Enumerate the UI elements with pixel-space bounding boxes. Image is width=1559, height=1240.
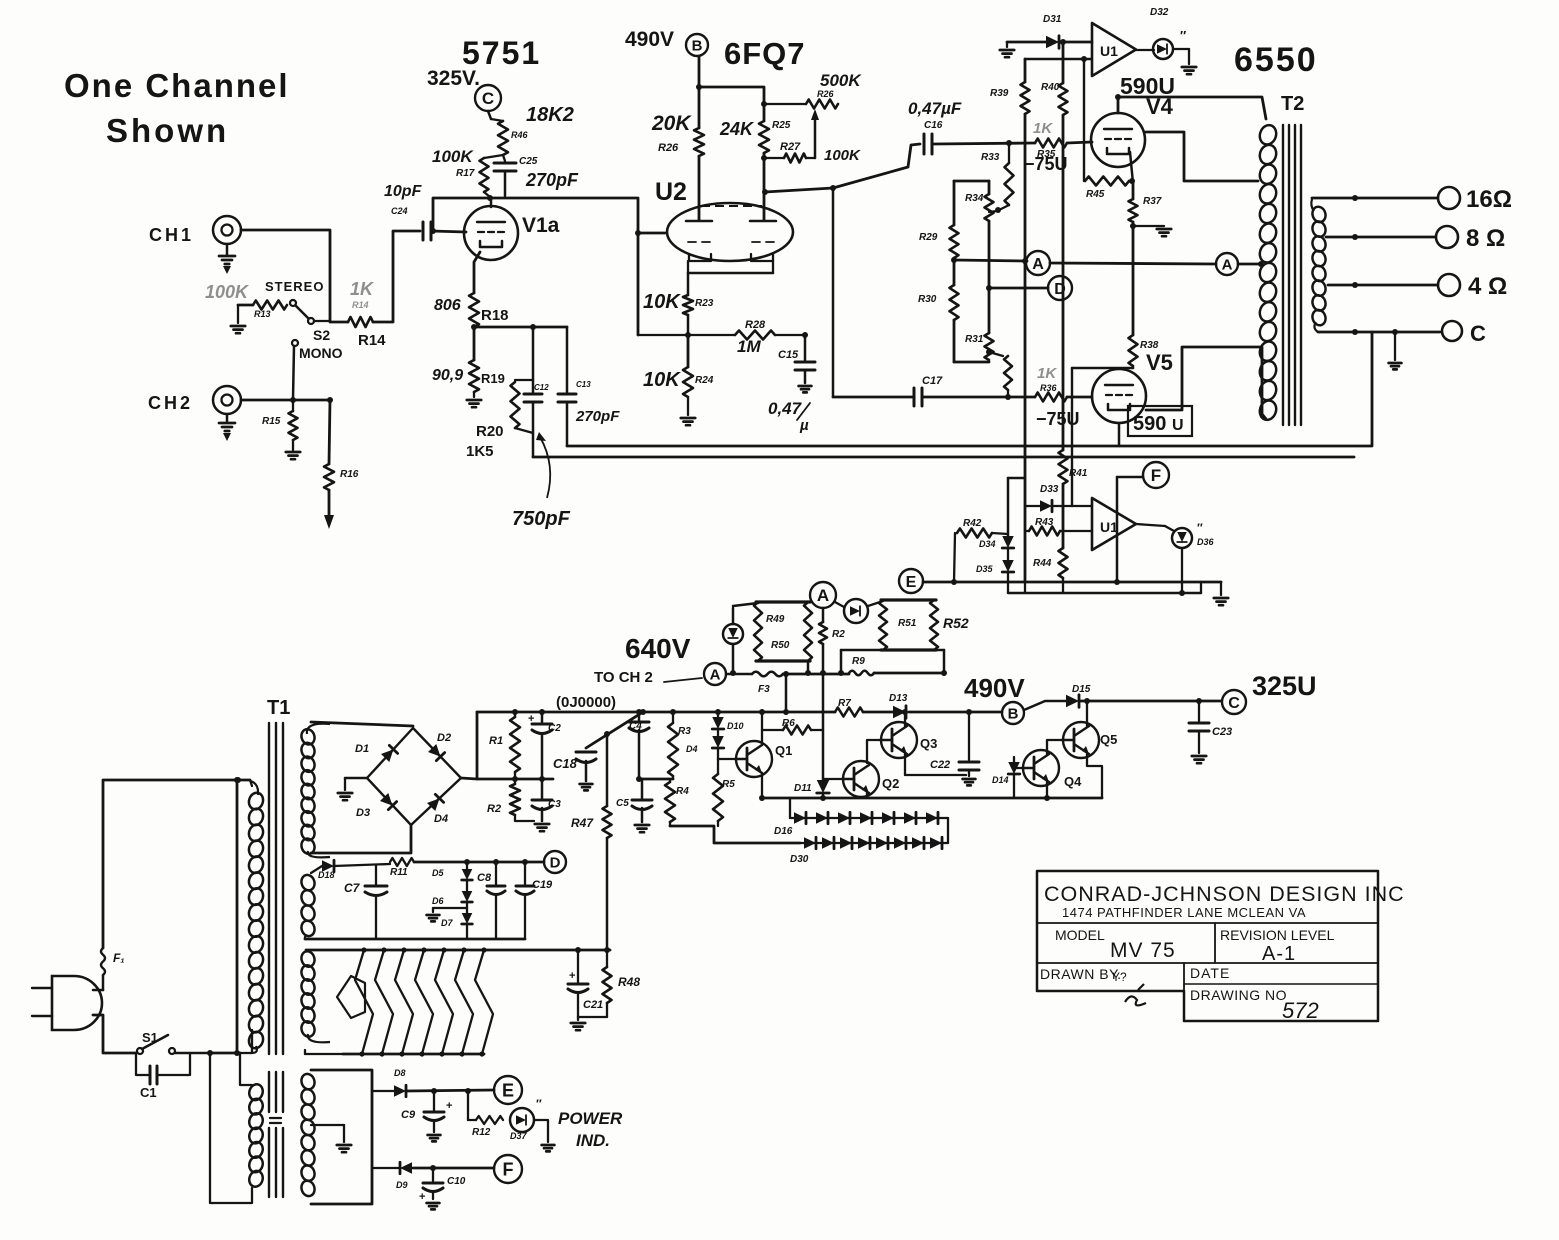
capacitor C9 [401, 1091, 452, 1132]
wire C17 to R36 [922, 396, 1035, 399]
svg-text:R2: R2 [487, 803, 501, 815]
label TO CH 2 [594, 669, 702, 686]
resistor R38 [1129, 335, 1159, 368]
wire 8 ohm tap [1326, 234, 1435, 240]
resistor R4 [665, 779, 689, 826]
svg-text:R2: R2 [832, 629, 845, 640]
svg-text:REVISION LEVEL: REVISION LEVEL [1220, 927, 1335, 943]
svg-text:R23: R23 [695, 298, 714, 309]
node A (640V to ch2) [704, 663, 726, 685]
resistor R3 [668, 709, 691, 779]
title text company [1044, 882, 1405, 906]
wire bridge to B+ bus [461, 712, 477, 779]
svg-text:R52: R52 [943, 615, 969, 631]
wire C tap [1318, 329, 1440, 335]
svg-text:1K: 1K [350, 279, 375, 299]
svg-text:C18: C18 [553, 756, 578, 771]
capacitor C18 [553, 752, 596, 781]
svg-text:325U: 325U [1252, 671, 1317, 701]
svg-text:U1: U1 [1100, 519, 1118, 535]
title text address [1062, 905, 1306, 920]
fuse R9 squiggle [849, 656, 944, 675]
svg-text:D37: D37 [510, 1131, 528, 1141]
svg-text:F: F [1151, 466, 1161, 485]
svg-text:R25: R25 [772, 120, 791, 131]
capacitor C23 [1189, 698, 1232, 738]
op-amp U1 (bottom) [1092, 498, 1136, 550]
wire F to servo [1117, 477, 1143, 582]
diode D10 [712, 709, 743, 731]
wire Q1 emitter [759, 773, 765, 801]
wire C24 to V1a grid [431, 231, 466, 232]
resistor R5 [713, 759, 735, 826]
svg-text:R33: R33 [981, 152, 1000, 163]
svg-text:R11: R11 [390, 867, 408, 878]
wire A tap from divider [954, 258, 1028, 264]
resistor R20 1K5 [466, 380, 533, 460]
svg-text:C13: C13 [576, 380, 591, 389]
resistor R23 10K [643, 273, 714, 335]
svg-text:One Channel: One Channel [64, 67, 290, 104]
wire divider cluster bottom [954, 361, 989, 364]
svg-text:CH2: CH2 [148, 393, 193, 413]
resistor R25 24K [719, 119, 791, 220]
svg-text:D35: D35 [976, 564, 994, 574]
svg-text:D33: D33 [1040, 484, 1059, 495]
transistor Q2 [823, 761, 899, 797]
T1 primary lower [247, 1083, 264, 1189]
svg-text:R7: R7 [838, 698, 851, 709]
svg-text:R44: R44 [1033, 558, 1052, 569]
wire CH1 to S2 [241, 230, 330, 321]
svg-text:U2: U2 [655, 178, 687, 206]
capacitor C10 [419, 1168, 466, 1203]
wire rail jog [1008, 478, 1025, 536]
svg-text:D2: D2 [437, 732, 451, 744]
terminal 8 ohm [1436, 225, 1505, 252]
capacitor C4 [629, 709, 649, 782]
input jack CH2 [213, 386, 241, 414]
svg-text:C24: C24 [391, 206, 408, 216]
svg-text:R42: R42 [963, 518, 982, 529]
diode D7 [441, 902, 472, 939]
resistor R31 [965, 333, 994, 360]
svg-text:806: 806 [434, 297, 461, 314]
wire heater bus top [306, 947, 610, 953]
svg-text:D15: D15 [1072, 684, 1091, 695]
ground below C10 [427, 1203, 440, 1209]
wire cathode node right [471, 324, 567, 330]
label 100K (pencil) [205, 282, 250, 302]
node D (bias supply) [544, 851, 566, 873]
heater wires [355, 947, 493, 1056]
svg-text:B: B [1008, 705, 1019, 722]
wire fuse to primary top [103, 777, 250, 948]
capacitor C5 [616, 779, 652, 822]
wire Q1 collector [759, 709, 765, 745]
svg-text:A: A [1032, 256, 1044, 273]
label T1 [267, 697, 290, 719]
resistor R14 [330, 317, 386, 349]
svg-text:750pF: 750pF [512, 508, 571, 530]
svg-text:C21: C21 [583, 999, 603, 1011]
label 5751 [462, 35, 541, 71]
resistor R43 [1025, 517, 1092, 536]
wire bottom winding box [311, 1070, 372, 1204]
ground below D37 [542, 1145, 555, 1151]
svg-text:0,47µF: 0,47µF [908, 99, 962, 118]
wire C16 to R35 [934, 143, 1035, 144]
svg-text:C4: C4 [629, 721, 642, 732]
svg-text:R24: R24 [695, 375, 714, 386]
U2 internals [686, 206, 776, 261]
svg-text:C10: C10 [447, 1176, 466, 1187]
diode D1 [355, 743, 398, 762]
resistor R34 [965, 181, 994, 333]
svg-text:C3: C3 [548, 799, 561, 810]
wire R47 rail [604, 731, 610, 806]
svg-text:D31: D31 [1043, 14, 1062, 25]
label 0,47uF C16 [908, 99, 962, 131]
transformer T1 core [269, 723, 283, 1197]
bias rail left [990, 59, 1091, 582]
svg-text:R6: R6 [782, 718, 795, 729]
wire HV winding bottom [311, 825, 411, 853]
svg-text:−75U: −75U [1024, 154, 1068, 174]
wire R4 to diode string [670, 826, 800, 843]
capacitor C15 0,47u [768, 335, 815, 434]
capacitor C8 [477, 862, 505, 939]
resistor R1 [489, 709, 520, 779]
wire D36 down [1179, 548, 1185, 596]
svg-text:572: 572 [1282, 998, 1319, 1023]
ground below C22 [963, 770, 976, 785]
ground below C5 [635, 825, 649, 832]
ground below CH2 jack [219, 414, 235, 441]
capacitor C7 [334, 864, 390, 939]
wire R14 to C24 [373, 231, 420, 322]
svg-text:U: U [1172, 417, 1184, 434]
resistor R29 [919, 181, 959, 258]
label T2 [1281, 93, 1304, 115]
wire R36 to V5 grid [1067, 396, 1092, 399]
ground below R19 [467, 392, 481, 407]
svg-text:4 Ω: 4 Ω [1468, 273, 1507, 300]
svg-text:R50: R50 [771, 640, 790, 651]
svg-text:R36: R36 [1040, 383, 1058, 393]
svg-text:C9: C9 [401, 1109, 416, 1121]
transformer T2 secondary [1311, 199, 1328, 332]
svg-text:″: ″ [1197, 521, 1203, 535]
bias rail right [1041, 39, 1068, 450]
T1 secondary HV [300, 724, 330, 858]
svg-text:Q2: Q2 [882, 776, 899, 791]
svg-text:D16: D16 [774, 826, 793, 837]
svg-text:10K: 10K [643, 369, 681, 391]
resistor R15 [262, 400, 298, 440]
svg-text:R12: R12 [472, 1127, 491, 1138]
resistor R35 [1035, 139, 1067, 161]
wire V4 screen tap [1146, 132, 1258, 181]
svg-text:R34: R34 [965, 193, 984, 204]
svg-text:325V.: 325V. [427, 67, 480, 90]
svg-text:R20: R20 [476, 423, 504, 440]
wire lower primary loop [210, 1053, 252, 1203]
diode D2 [428, 732, 451, 761]
resistor R6 [762, 718, 823, 735]
ground below R24 [681, 397, 695, 425]
wire R52 bottom right [934, 650, 947, 676]
svg-text:D4: D4 [434, 813, 448, 825]
wire to 24K [696, 84, 764, 121]
diode D4 [686, 730, 724, 759]
svg-text:R19: R19 [481, 371, 505, 386]
resistor R45 [1085, 177, 1135, 201]
resistor R37 [1129, 183, 1162, 335]
wire V4 cathode [1130, 152, 1133, 183]
svg-text:F₁: F₁ [113, 951, 125, 965]
label 750pF with arrow [512, 432, 571, 530]
svg-text:8 Ω: 8 Ω [1466, 225, 1505, 252]
svg-text:STEREO: STEREO [265, 279, 324, 294]
svg-text:MONO: MONO [299, 345, 343, 361]
svg-text:R17: R17 [456, 168, 475, 179]
label POWER IND [558, 1109, 623, 1150]
wire HV winding top [311, 722, 413, 726]
svg-text:C: C [1470, 321, 1486, 346]
svg-text:6550: 6550 [1234, 41, 1318, 79]
wire to 325V node [1079, 700, 1221, 703]
svg-text:D18: D18 [318, 870, 335, 880]
svg-text:Shown: Shown [106, 112, 229, 149]
resistor R13 [238, 301, 287, 320]
wire Q5 emitter [1087, 754, 1102, 798]
node D (bias) [989, 276, 1072, 300]
svg-text:R18: R18 [481, 307, 509, 324]
label 6FQ7 [724, 36, 806, 71]
capacitor C2 [528, 709, 561, 779]
node C (325V) [1222, 671, 1317, 714]
svg-text:590: 590 [1133, 413, 1166, 435]
capacitor 750pF [524, 327, 549, 457]
node E (heater dc) [494, 1076, 522, 1104]
label V4 [1146, 94, 1174, 119]
diode D9 [372, 1162, 412, 1190]
wire to E node [406, 1088, 494, 1094]
svg-text:R49: R49 [766, 614, 785, 625]
wire heater bus bottom [305, 1050, 484, 1054]
wire CH2 to junction [241, 397, 333, 403]
ground below D32 [1173, 49, 1196, 74]
wire Q4 emitter [1044, 782, 1050, 801]
wire B down / resistor R26 20K [651, 56, 704, 220]
svg-text:R37: R37 [1143, 196, 1162, 207]
svg-text:µ: µ [799, 417, 809, 434]
wire C21/R48 bottom [578, 1017, 607, 1020]
ground below R15 [286, 440, 300, 459]
op-amp U1 (top) [1092, 23, 1136, 76]
svg-text:R31: R31 [965, 334, 984, 345]
svg-text:C5: C5 [616, 798, 629, 809]
svg-text:D11: D11 [794, 783, 812, 794]
wire cathode ground tap [1130, 223, 1164, 229]
wire U2 plate to C16 [765, 144, 920, 192]
svg-text:A-1: A-1 [1262, 943, 1296, 965]
label 6550 [1234, 41, 1318, 79]
label 1K (pencil) [350, 279, 375, 310]
wire choke to C18 [586, 709, 646, 748]
label -75V [1024, 154, 1068, 174]
svg-text:270pF: 270pF [575, 408, 620, 425]
svg-text:C15: C15 [778, 349, 799, 361]
wire F3 junction down to 640V bus [783, 674, 789, 715]
capacitor C3 [532, 779, 561, 821]
wire Q2 emitter [866, 793, 868, 798]
capacitor C22 [930, 709, 979, 771]
resistor R7 [835, 698, 863, 717]
svg-text:1K: 1K [1033, 120, 1053, 137]
svg-text:6FQ7: 6FQ7 [724, 36, 806, 71]
resistor R2b [487, 779, 534, 821]
fuse F3 [726, 672, 783, 695]
svg-text:R48: R48 [618, 975, 640, 989]
svg-text:Q3: Q3 [920, 736, 937, 751]
transistor Q5 [1062, 722, 1117, 758]
resistor R50 (box right) [756, 602, 812, 661]
svg-text:D32: D32 [1150, 7, 1169, 18]
svg-text:D10: D10 [727, 721, 744, 731]
wire D37 to ground [534, 1097, 548, 1142]
svg-text:D30: D30 [790, 854, 809, 865]
svg-text:Q5: Q5 [1100, 732, 1117, 747]
svg-text:R15: R15 [262, 416, 281, 427]
diode D31 [1007, 14, 1092, 48]
diode D32 [1136, 7, 1186, 59]
svg-text:R13: R13 [254, 309, 271, 319]
ground V4 cathode [1157, 229, 1171, 236]
wire bias rail down [822, 674, 825, 780]
terminal C [1442, 321, 1486, 346]
capacitor C25 270pF [494, 155, 579, 196]
svg-text:DRAWING NO: DRAWING NO [1190, 987, 1287, 1003]
wire R35 to V4 grid [1067, 142, 1092, 143]
svg-text:5751: 5751 [462, 35, 541, 71]
wire V5 cathode to bus [1118, 423, 1121, 446]
svg-text:Q1: Q1 [775, 743, 792, 758]
led D38 (bias indicator) [723, 603, 758, 676]
diode D36 [1136, 521, 1215, 548]
svg-text:R40: R40 [1041, 82, 1060, 93]
transistor Q4 [1022, 750, 1082, 789]
T1 primary upper [247, 781, 265, 1053]
note: One Channel Shown [64, 67, 290, 149]
node B (490V) [964, 673, 1025, 724]
wire T1 primary tap vertical [234, 777, 240, 1056]
diode D15 [1024, 684, 1091, 710]
resistor R49 (box left) [754, 602, 810, 661]
label 640V [625, 633, 691, 664]
wire R16 to arrow (to other channel) [324, 490, 334, 529]
node B (490V supply) [686, 34, 708, 56]
diode string D16 row [774, 798, 948, 837]
wire A line [783, 671, 849, 677]
svg-text:R29: R29 [919, 232, 938, 243]
resistor R19 909 [432, 327, 505, 392]
svg-text:C16: C16 [924, 120, 943, 131]
label 10pF [384, 183, 423, 200]
node C (325V supply) [475, 85, 501, 111]
label 325V [427, 67, 480, 90]
svg-text:CH1: CH1 [149, 225, 194, 245]
diode D6 [432, 880, 472, 906]
svg-text:C23: C23 [1212, 726, 1232, 738]
diode D18 [311, 860, 335, 880]
wire V5 plate to T2 [1146, 347, 1266, 419]
resistor R27 100K [761, 141, 861, 164]
switch S1 [137, 1030, 210, 1054]
title text date [1190, 965, 1230, 981]
svg-text:DRAWN BY.: DRAWN BY. [1040, 966, 1122, 982]
diode D35 [976, 548, 1014, 593]
svg-text:R9: R9 [852, 656, 865, 667]
capacitor C13 270pF [558, 327, 620, 446]
resistor R28 1M [638, 319, 808, 356]
svg-text:R28: R28 [745, 319, 766, 331]
resistor R30 [918, 257, 959, 362]
svg-text:100K: 100K [432, 147, 474, 166]
ground on C tap [1389, 332, 1402, 369]
wire V4 plate to T2 [1115, 94, 1266, 119]
svg-text:90,9: 90,9 [432, 367, 463, 384]
terminal 4 ohm [1438, 273, 1507, 300]
triode V1a [464, 206, 560, 260]
ground below C18 [580, 784, 593, 790]
fuse F1 [93, 948, 125, 990]
ground left of D31 [1000, 42, 1014, 57]
capacitor C1 [136, 1053, 190, 1100]
wire R50 down to A line [805, 661, 811, 676]
resistor R42 [957, 518, 1008, 538]
wire Q5 collector [1084, 698, 1090, 726]
wire Q3 collector [902, 709, 908, 726]
svg-text:1M: 1M [737, 337, 761, 356]
svg-text:″: ″ [1180, 28, 1186, 43]
title text drawn by [1040, 966, 1146, 1005]
transistor Q3 [880, 722, 937, 758]
svg-text:1K5: 1K5 [466, 443, 494, 460]
ac plug [32, 976, 102, 1030]
terminal 16 ohm [1438, 186, 1512, 213]
svg-text:C2: C2 [548, 723, 561, 734]
ground below C15 [799, 386, 812, 392]
wire plate bus V1a [430, 195, 665, 335]
choke (0J0000) [556, 694, 616, 711]
svg-text:TO CH 2: TO CH 2 [594, 669, 653, 686]
svg-text:MV 75: MV 75 [1110, 939, 1176, 962]
ground below C3 [535, 824, 549, 831]
T1 secondary bias [300, 873, 317, 938]
wire bias line to D node [414, 859, 544, 865]
label 590 U boxed [1128, 406, 1192, 436]
svg-text:C: C [482, 89, 494, 108]
svg-text:R16: R16 [340, 469, 359, 480]
wire R38 to bias rail [1072, 368, 1133, 506]
label 490V [625, 28, 674, 51]
wire servo return line [1008, 582, 1201, 593]
T1 secondary bottom [300, 1072, 317, 1198]
title text revision [1220, 927, 1335, 965]
svg-text:D1: D1 [355, 743, 369, 755]
